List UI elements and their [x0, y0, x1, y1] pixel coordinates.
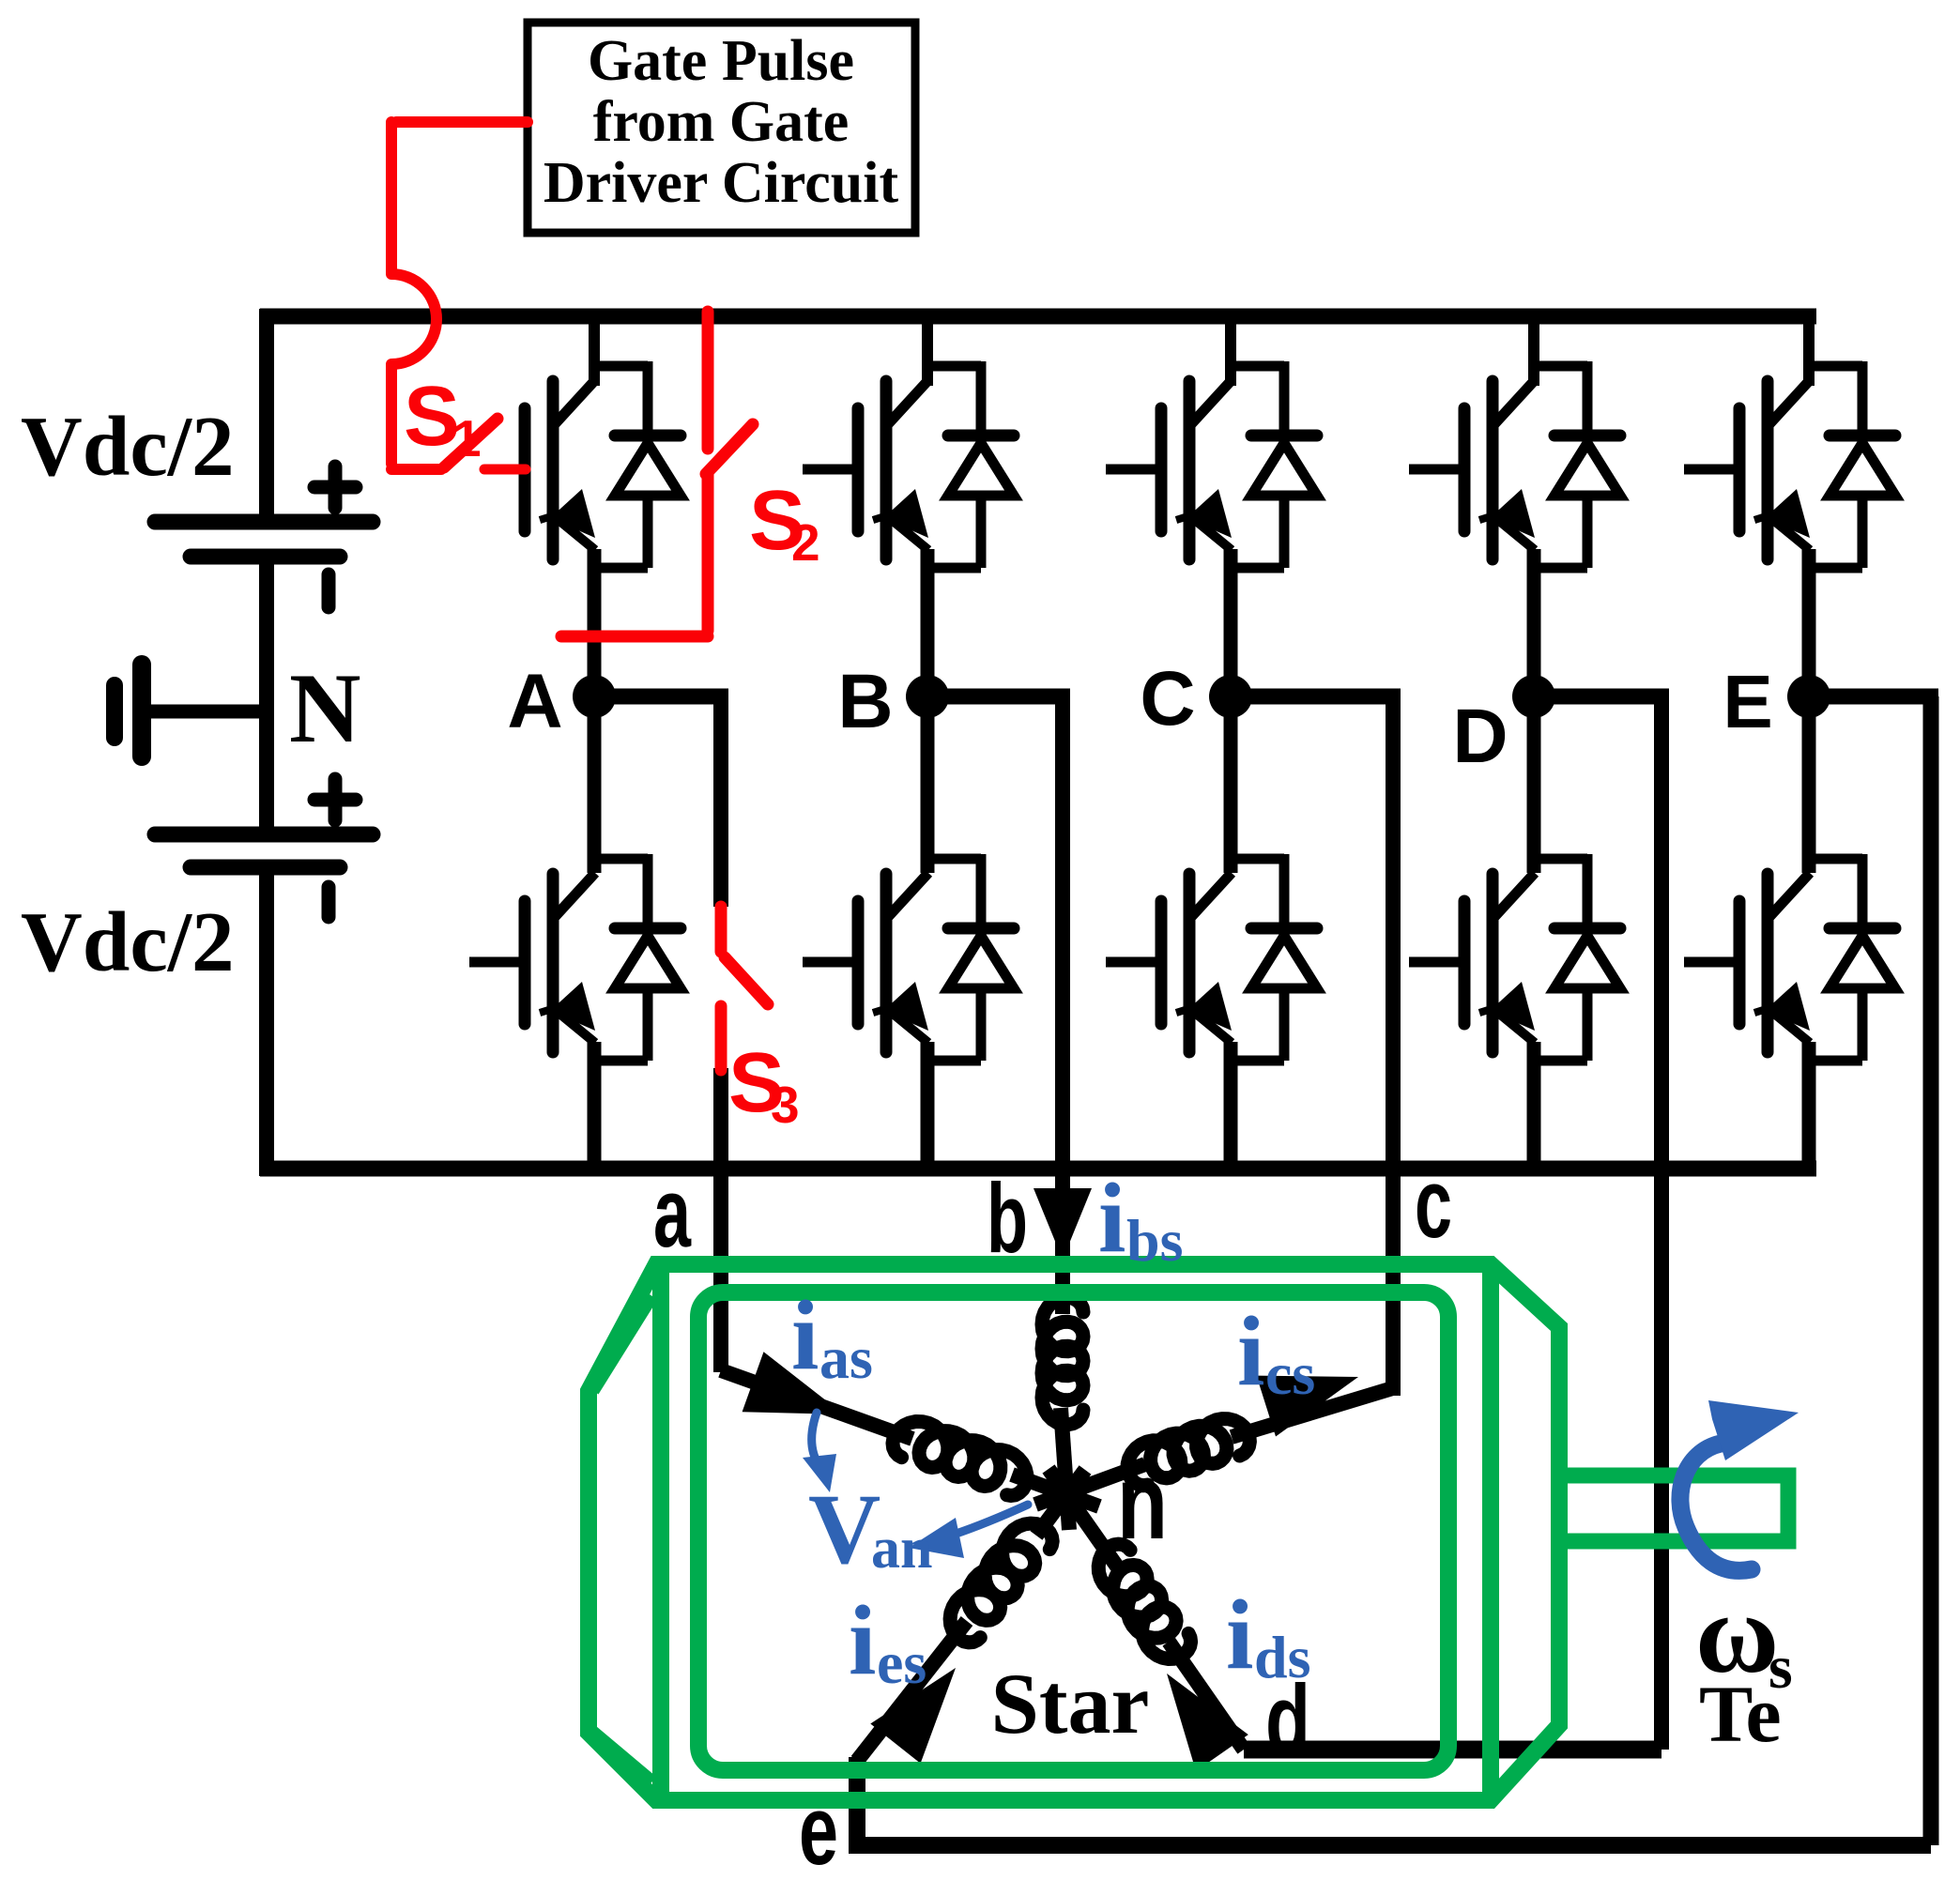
svg-text:Driver Circuit: Driver Circuit [544, 151, 899, 215]
svg-text:C: C [1140, 656, 1195, 741]
svg-text:from Gate: from Gate [593, 90, 850, 154]
svg-text:cs: cs [1265, 1340, 1315, 1407]
svg-text:Gate Pulse: Gate Pulse [588, 29, 854, 93]
svg-text:c: c [1415, 1149, 1452, 1259]
svg-text:e: e [799, 1776, 838, 1875]
svg-text:es: es [877, 1629, 926, 1696]
svg-text:d: d [1265, 1665, 1310, 1775]
svg-text:A: A [507, 659, 562, 744]
svg-text:n: n [1117, 1444, 1168, 1561]
svg-text:2: 2 [791, 513, 820, 572]
svg-text:Star: Star [991, 1656, 1150, 1751]
svg-text:Vdc/2: Vdc/2 [21, 894, 235, 989]
svg-text:Vdc/2: Vdc/2 [21, 399, 235, 494]
svg-text:E: E [1723, 660, 1772, 743]
svg-text:bs: bs [1126, 1207, 1184, 1274]
svg-text:D: D [1452, 694, 1508, 779]
svg-text:i: i [1098, 1163, 1125, 1273]
svg-text:as: as [819, 1324, 873, 1391]
svg-text:1: 1 [452, 409, 482, 467]
svg-text:B: B [837, 659, 893, 744]
svg-text:b: b [987, 1164, 1028, 1274]
svg-text:N: N [289, 653, 361, 763]
svg-text:i: i [849, 1585, 876, 1695]
svg-text:3: 3 [771, 1076, 800, 1134]
svg-text:an: an [871, 1517, 932, 1581]
svg-text:Te: Te [1699, 1669, 1782, 1759]
svg-text:i: i [1226, 1580, 1253, 1689]
svg-text:V: V [808, 1475, 880, 1585]
svg-text:i: i [1237, 1296, 1264, 1406]
svg-text:a: a [653, 1158, 692, 1268]
svg-text:i: i [791, 1280, 819, 1390]
